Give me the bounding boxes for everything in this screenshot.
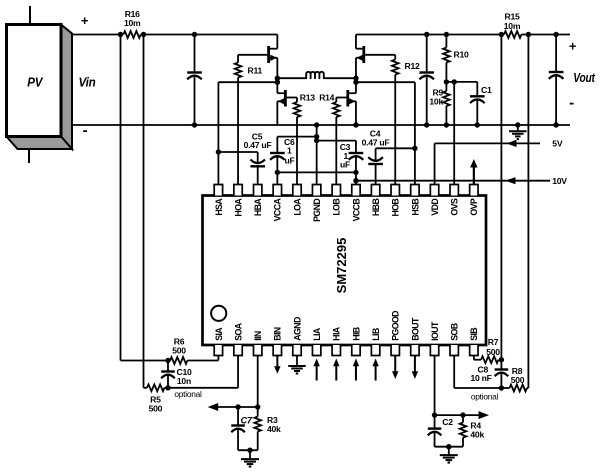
svg-text:SIB: SIB (469, 328, 479, 341)
pin VCCB (top, stub) (351, 185, 361, 222)
svg-text:SIA: SIA (214, 327, 224, 341)
label PV (27, 75, 43, 90)
label C8 10 nF (470, 364, 491, 383)
svg-text:500: 500 (172, 345, 186, 355)
svg-text:Vin: Vin (79, 75, 96, 90)
label R3 40k (267, 415, 281, 434)
label C5 0.47 uF (244, 131, 272, 150)
svg-text:SOB: SOB (450, 323, 460, 341)
svg-text:Vout: Vout (573, 70, 595, 85)
wire C5 link (218, 151, 257, 153)
wire C6 to PGND (277, 136, 316, 138)
svg-text:10n: 10n (177, 376, 191, 386)
label R15 10m (504, 12, 521, 31)
label C4 0.47 uF (362, 128, 390, 147)
wire rail A (R16 to Q1 drain) (141, 34, 278, 36)
node C10 bottom (165, 385, 170, 390)
resistor R12 (392, 55, 399, 185)
transistor Q4 (low-side B) (346, 82, 356, 125)
node R10 top (444, 32, 449, 37)
wire VCCB pin (355, 172, 357, 184)
wire SIA line (187, 356, 218, 361)
node OVS divider junction (444, 79, 449, 84)
svg-text:optional: optional (471, 391, 499, 401)
node C6-PGND tap (314, 134, 319, 139)
wire sense line A- (R16 right to R5) (144, 35, 148, 388)
label optional (right) (471, 391, 499, 401)
output capacitor (Vout) (549, 35, 564, 126)
label R14 (319, 92, 334, 102)
svg-text:40k: 40k (470, 430, 484, 440)
label optional (left) (174, 389, 202, 399)
label R11 (248, 66, 263, 76)
IC pin-1 marker circle (211, 306, 226, 321)
svg-text:10m: 10m (124, 18, 141, 28)
arrow BIN (down) (274, 356, 280, 374)
svg-text:VCCA: VCCA (273, 198, 283, 222)
label R12 (405, 61, 420, 71)
svg-text:HIA: HIA (332, 326, 342, 341)
svg-text:SOA: SOA (233, 322, 243, 341)
input capacitor (187, 35, 202, 126)
wire C2-R4 bottom (435, 446, 463, 448)
label R16 10m (124, 9, 141, 28)
svg-text:IIN: IIN (253, 331, 263, 341)
svg-text:HBB: HBB (371, 199, 381, 217)
svg-text:500: 500 (149, 404, 163, 414)
ground symbol AGND (288, 356, 306, 374)
label - (PV negative) (83, 122, 88, 139)
inductor L1 (277, 72, 356, 78)
svg-text:LOA: LOA (292, 198, 302, 216)
pin HIB (bottom, stub) (351, 327, 361, 355)
svg-text:uF: uF (340, 160, 350, 170)
svg-text:PV: PV (27, 75, 43, 90)
svg-text:R12: R12 (405, 61, 420, 71)
svg-text:C1: C1 (481, 85, 492, 95)
PV panel (3D box) (7, 6, 73, 163)
pin HSB (top, stub) (410, 185, 420, 216)
pin SOA (bottom, stub) (233, 322, 243, 355)
svg-text:500: 500 (486, 347, 500, 357)
node R9 bottom (444, 122, 449, 127)
capacitor C8 (495, 360, 509, 388)
wire C3 to PGND (317, 140, 356, 142)
pin OVS (top, stub) (450, 185, 460, 216)
label Vout (573, 70, 595, 85)
node switch B (HSB tap) (353, 80, 358, 85)
pin OVP (top, stub) (469, 185, 479, 216)
arrow BOUT (down) (412, 356, 418, 380)
node switch B (inductor right) (353, 76, 358, 81)
node R16 left (118, 32, 123, 37)
node C8 top (499, 357, 504, 362)
ground symbol (PGND rail) (509, 125, 527, 139)
node Vout cap top (553, 32, 558, 37)
svg-text:VCCB: VCCB (351, 199, 361, 222)
pin IOUT (bottom, stub) (430, 321, 440, 356)
resistor R9 (443, 82, 450, 125)
arrow LIA (up) (313, 359, 319, 381)
node input cap bottom (192, 122, 197, 127)
pin PGND (top, stub) (312, 185, 322, 222)
node C2 top (432, 412, 437, 417)
node VCCA tap (275, 170, 280, 175)
wire R15 to Vout+ (521, 34, 570, 36)
resistor R13 (294, 98, 301, 185)
label C2 (442, 417, 453, 427)
svg-text:uF: uF (285, 156, 295, 166)
arrow 5V (507, 140, 517, 147)
label R4 40k (470, 421, 484, 440)
IC U1 SM72295 body (203, 196, 487, 346)
svg-text:1: 1 (287, 146, 292, 156)
wire 5V line to VDD (435, 143, 540, 184)
transistor Q3 (low-side A) (277, 82, 286, 125)
wire IOUT to arrow (435, 414, 479, 416)
wire VCCA-VCCB link (277, 171, 356, 173)
ground symbol (C7/R3) (241, 450, 259, 466)
label R6 500 (172, 336, 186, 355)
svg-text:R13: R13 (300, 92, 315, 102)
node R4 top (460, 412, 465, 417)
wire Q3 gate (287, 97, 297, 99)
node input cap top (192, 32, 197, 37)
svg-text:AGND: AGND (292, 317, 302, 341)
capacitor C4 (368, 148, 383, 184)
label C7 (241, 416, 253, 426)
label R5 500 (149, 395, 163, 414)
pin LOB (top, stub) (332, 185, 342, 216)
arrow IIN (left) (208, 403, 258, 411)
node Q4 source on PGND rail (353, 122, 358, 127)
svg-text:optional: optional (174, 389, 202, 399)
wire HSB to switch node B (356, 82, 415, 184)
node HSA-C5 tap (216, 149, 221, 154)
svg-text:R11: R11 (248, 66, 263, 76)
capacitor C1 (470, 82, 485, 125)
svg-text:500: 500 (511, 375, 525, 385)
svg-text:R10: R10 (454, 50, 469, 60)
label R9 10k (429, 88, 443, 107)
capacitor C2 (428, 415, 442, 447)
label R7 500 (486, 337, 500, 357)
label + (PV positive) (81, 13, 89, 28)
node C1 bottom (475, 122, 480, 127)
label C6 1 uF (284, 137, 295, 165)
pin PGOOD (bottom, stub) (391, 311, 401, 356)
arrow HIA (up) (333, 359, 339, 381)
label - (Vout negative) (569, 95, 574, 112)
wire SIB line (474, 356, 481, 360)
svg-text:0.47 uF: 0.47 uF (362, 137, 390, 147)
svg-text:5V: 5V (552, 139, 563, 149)
svg-text:R7: R7 (488, 337, 499, 347)
resistor R3 (254, 407, 261, 450)
output bulk capacitor (419, 35, 434, 126)
node C7 top (235, 404, 240, 409)
arrow 10V (506, 177, 516, 184)
arrow HIB (up) (353, 359, 359, 381)
pin HOA (top, stub) (233, 185, 243, 217)
wire C4 link to HSB (376, 147, 415, 149)
pin HSA (top, stub) (214, 185, 224, 216)
svg-text:HBA: HBA (253, 198, 263, 217)
capacitor C10 (161, 361, 175, 388)
wire sense line B- (R15 right to R8) (527, 35, 529, 389)
node switch A (HSA tap) (275, 80, 280, 85)
transistor Q1 (high-side A) (267, 35, 277, 79)
pin SOB (bottom, stub) (450, 323, 460, 355)
label R13 (300, 92, 315, 102)
resistor R5 (147, 384, 164, 391)
svg-text:C2: C2 (442, 417, 453, 427)
node R16 right (141, 32, 146, 37)
wire 10V line to VCCB (356, 180, 550, 182)
capacitor C6 (270, 137, 285, 173)
svg-text:10k: 10k (429, 96, 443, 106)
wire sense line B+ (R15 left to R7/C8) (500, 35, 502, 360)
label C1 (481, 85, 492, 95)
node switch A (inductor left) (275, 76, 280, 81)
pin HBA (top, stub) (253, 185, 263, 217)
svg-text:HOB: HOB (391, 199, 401, 217)
svg-text:OVS: OVS (450, 198, 460, 216)
svg-text:VDD: VDD (430, 199, 440, 216)
svg-text:LOB: LOB (332, 199, 342, 216)
wire rail B (Q2 drain to R15) (356, 34, 501, 36)
ground symbol (C2/R4) (440, 447, 458, 463)
pin BIN (bottom, stub) (273, 327, 283, 355)
pin HOB (top, stub) (391, 185, 401, 217)
node Vout cap bottom (553, 122, 558, 127)
node C10 top (165, 358, 170, 363)
svg-text:HOA: HOA (233, 198, 243, 217)
node ground junction (C2/R4) (446, 444, 451, 449)
svg-text:+: + (81, 13, 89, 28)
resistor R8 (510, 385, 529, 392)
svg-text:-: - (569, 95, 574, 112)
wire SOB line (454, 356, 509, 389)
pin HIA (bottom, stub) (332, 326, 342, 355)
svg-text:BOUT: BOUT (410, 317, 420, 341)
node IIN-R3 junction (255, 404, 260, 409)
wire PV+ to R16 (72, 34, 121, 36)
node output bulk cap top (424, 32, 429, 37)
node PGND rail tap (314, 122, 319, 127)
arrow IOUT (right) (479, 411, 490, 419)
wire OVS pin (453, 82, 455, 185)
svg-text:10 nF: 10 nF (470, 373, 491, 383)
node C4-HSB tap (412, 146, 417, 151)
pin LOA (top, stub) (292, 185, 302, 216)
node VCCB tap (353, 170, 358, 175)
node VCCB 10V tap (353, 178, 358, 183)
wire VCCA pin (276, 172, 278, 184)
arrow LIB (up) (372, 359, 378, 381)
wire IIN line (257, 356, 259, 408)
resistor R15 (499, 31, 531, 38)
capacitor C3 (349, 141, 364, 173)
node output bulk cap bottom (424, 122, 429, 127)
resistor R11 (235, 55, 242, 185)
resistor R7 (481, 356, 498, 363)
resistor R10 (443, 35, 450, 82)
label + (Vout positive) (569, 39, 577, 54)
node C8 bottom (499, 385, 504, 390)
svg-text:LIB: LIB (371, 328, 381, 341)
resistor R4 (460, 415, 467, 447)
label C10 10n (177, 367, 192, 386)
svg-text:SM72295: SM72295 (334, 238, 349, 294)
pin VDD (top, stub) (430, 185, 440, 216)
arrow PGOOD (down) (392, 356, 398, 380)
wire Q4 gate (336, 97, 346, 99)
transistor Q2 (high-side B) (356, 35, 365, 79)
capacitor C7 (231, 407, 245, 450)
wire SOA line (164, 356, 238, 388)
svg-text:40k: 40k (267, 424, 281, 434)
resistor R14 (333, 98, 340, 185)
pin IIN (bottom, stub) (253, 331, 263, 355)
wire PGND pin to rail (316, 125, 318, 185)
wire Q1 gate (238, 54, 267, 56)
pin VCCA (top, stub) (273, 185, 283, 222)
svg-text:HIB: HIB (351, 327, 361, 341)
wire OVS junction to C1 (446, 81, 477, 83)
svg-text:IOUT: IOUT (430, 321, 440, 341)
wire IOUT line (434, 356, 436, 416)
pin SIA (bottom, stub) (214, 327, 224, 356)
capacitor C5 (250, 152, 265, 185)
wire HSA to switch node A (218, 82, 277, 184)
svg-text:C7: C7 (241, 416, 253, 426)
label 10V (552, 176, 567, 186)
pin LIA (bottom, stub) (312, 327, 322, 355)
wire sense line A+ (R16 left to R6) (121, 35, 169, 361)
node OVS tap (452, 79, 457, 84)
svg-text:+: + (569, 39, 577, 54)
label C3 1 uF (340, 142, 351, 169)
svg-text:HSA: HSA (214, 198, 224, 216)
svg-text:HSB: HSB (410, 199, 420, 216)
svg-text:LIA: LIA (312, 327, 322, 341)
label R8 500 (511, 366, 525, 385)
node C3-PGND tap (314, 138, 319, 143)
svg-text:PGOOD: PGOOD (391, 311, 401, 341)
pin LIB (bottom, stub) (371, 328, 381, 355)
svg-text:OVP: OVP (469, 198, 479, 216)
label Vin (79, 75, 96, 90)
svg-text:10m: 10m (504, 21, 521, 31)
wire C7-R3 bottom (238, 449, 258, 451)
resistor R16 (123, 31, 140, 38)
pin SIB (bottom, stub) (469, 328, 479, 356)
pin BOUT (bottom, stub) (410, 317, 420, 355)
svg-text:0.47 uF: 0.47 uF (244, 140, 272, 150)
arrow OVP (up) (470, 159, 477, 185)
pin HBB (top, stub) (371, 185, 381, 217)
svg-text:PGND: PGND (312, 199, 322, 222)
pin AGND (bottom, stub) (292, 317, 302, 355)
node ground junction (C7/R3) (247, 448, 252, 453)
wire Q2 gate (365, 54, 395, 56)
svg-text:BIN: BIN (273, 327, 283, 341)
svg-text:R14: R14 (319, 92, 334, 102)
svg-text:10V: 10V (552, 176, 567, 186)
resistor R6 (170, 357, 187, 364)
label R10 (454, 50, 469, 60)
wire PGND rail (PV- to Vout-) (72, 124, 570, 126)
label 5V (552, 139, 563, 149)
label SM72295 (334, 238, 349, 294)
